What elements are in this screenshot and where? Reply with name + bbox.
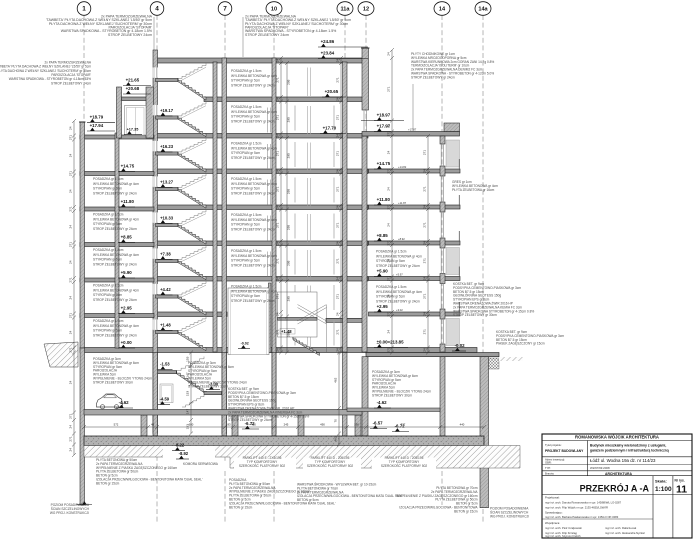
svg-text:45: 45 <box>151 423 155 427</box>
svg-text:STROP ŻELBETOWY gr 30cm: STROP ŻELBETOWY gr 30cm <box>453 312 497 317</box>
slab floor left bay <box>80 314 154 318</box>
wall stair shaft left / grid 4 <box>153 50 158 434</box>
svg-text:POSADZKA gr 1.5cm: POSADZKA gr 1.5cm <box>93 248 124 252</box>
svg-text:STYROPIAN gr 5cm: STYROPIAN gr 5cm <box>231 115 260 119</box>
svg-text:PIASEK ZAGĘSZCZONY gr 15cm: PIASEK ZAGĘSZCZONY gr 15cm <box>496 342 545 346</box>
level marker +0.00 left <box>118 340 135 348</box>
wall grid 11a basement <box>343 353 348 437</box>
text block roof build-up B <box>245 15 351 37</box>
window grid 12 below parapet <box>364 110 367 132</box>
svg-text:+11.80: +11.80 <box>121 199 135 204</box>
svg-text:STYROPIAN gr 5cm: STYROPIAN gr 5cm <box>93 187 122 191</box>
svg-text:271: 271 <box>386 240 390 245</box>
svg-text:-8.22: -8.22 <box>175 443 185 448</box>
svg-text:STROP ŻELBETOWY gr 24cm: STROP ŻELBETOWY gr 24cm <box>93 297 137 302</box>
svg-text:STROP ŻELBETOWY gr 24cm: STROP ŻELBETOWY gr 24cm <box>93 332 137 337</box>
svg-text:+8.85: +8.85 <box>377 233 389 238</box>
svg-text:11a: 11a <box>340 7 350 13</box>
text label komora serwisowa <box>183 462 219 466</box>
text block foundation build-up left <box>96 458 203 485</box>
svg-text:WG PROJ. KONSTRUKCJI: WG PROJ. KONSTRUKCJI <box>50 511 89 515</box>
level marker -6.72 right <box>392 424 409 432</box>
svg-text:147: 147 <box>185 372 189 377</box>
svg-text:Sprawdzający:: Sprawdzający: <box>545 511 563 515</box>
svg-text:271: 271 <box>422 258 426 263</box>
svg-text:737: 737 <box>401 423 406 427</box>
svg-text:24: 24 <box>68 381 72 385</box>
svg-text:STROP ŻELBETOWY 24cm: STROP ŻELBETOWY 24cm <box>245 32 289 37</box>
svg-text:-4.62: -4.62 <box>377 400 388 405</box>
wall grid 14 with window gaps <box>440 136 445 144</box>
slab roof +23.84 <box>157 58 368 63</box>
svg-text:-6.57: -6.57 <box>373 421 384 426</box>
svg-text:24: 24 <box>275 205 279 209</box>
svg-text:295: 295 <box>287 225 291 230</box>
door gap in shaft wall at landing <box>153 319 158 329</box>
svg-text:Tytuł projektu:: Tytuł projektu: <box>545 443 562 447</box>
svg-text:24: 24 <box>275 241 279 245</box>
text block floor build-up left bay <box>93 284 139 302</box>
ground slab right extension -0.02 <box>366 353 499 357</box>
level marker +1.48 mezzanine <box>280 329 295 335</box>
svg-text:WYLEWKA BETONOWA gr 4cm: WYLEWKA BETONOWA gr 4cm <box>93 182 139 186</box>
svg-text:+8.92: +8.92 <box>398 237 405 241</box>
svg-text:Budynek mieszkalny wielorodzin: Budynek mieszkalny wielorodzinny z usług… <box>590 444 666 448</box>
svg-text:24: 24 <box>335 134 339 138</box>
svg-text:Skala:: Skala: <box>655 479 667 484</box>
svg-text:+18.97: +18.97 <box>377 113 391 118</box>
balcony balustrade tick <box>458 267 460 277</box>
svg-text:PŁYTA ŻELBETOWA gr 16cm: PŁYTA ŻELBETOWA gr 16cm <box>452 187 495 192</box>
text block terrace build-up right <box>411 52 494 79</box>
text block ground floor build-up mid <box>188 361 247 388</box>
svg-text:83: 83 <box>227 423 231 427</box>
svg-text:Łódź ul. Wodna 19a dz. nr 114/: Łódź ul. Wodna 19a dz. nr 114/23 <box>590 458 656 463</box>
left parapet cap <box>79 121 86 123</box>
slab floor left bay <box>80 207 154 211</box>
svg-text:271: 271 <box>68 277 72 282</box>
door gap in shaft wall at landing <box>153 176 158 186</box>
svg-text:271: 271 <box>386 86 390 91</box>
svg-text:Projektował:: Projektował: <box>545 496 560 500</box>
svg-text:24: 24 <box>335 348 339 352</box>
svg-text:24: 24 <box>68 154 72 158</box>
wall left interior <box>115 133 119 348</box>
level marker +17.70 <box>320 126 346 134</box>
svg-text:10: 10 <box>271 7 277 13</box>
svg-text:4: 4 <box>155 6 159 13</box>
right bay basement slab <box>347 408 440 412</box>
svg-text:24: 24 <box>335 169 339 173</box>
svg-text:271: 271 <box>335 151 339 156</box>
grid line 10 <box>273 15 275 522</box>
slab floor left bay <box>80 172 154 176</box>
svg-text:271: 271 <box>386 347 390 352</box>
balcony balustrade tick <box>458 231 460 241</box>
door gap in shaft wall at landing <box>153 67 158 77</box>
svg-text:TYP:: TYP: <box>545 466 551 470</box>
window mullions tower facade <box>295 250 334 275</box>
svg-text:POSADZKA gr 1.5cm: POSADZKA gr 1.5cm <box>231 213 262 217</box>
svg-text:271: 271 <box>335 77 339 82</box>
door gap in shaft wall at landing <box>153 284 158 294</box>
car in garage <box>97 394 123 409</box>
svg-text:WYLEWKA BETONOWA gr 4cm: WYLEWKA BETONOWA gr 4cm <box>93 217 139 221</box>
svg-text:24: 24 <box>275 134 279 138</box>
svg-text:271: 271 <box>386 311 390 316</box>
svg-text:ARCHITEKTURA: ARCHITEKTURA <box>605 472 632 476</box>
text block floor build-up mid bay <box>231 69 277 87</box>
svg-text:WYLEWKA BETONOWA gr 4cm: WYLEWKA BETONOWA gr 4cm <box>231 74 277 78</box>
svg-text:24: 24 <box>68 296 72 300</box>
pit wall parklift 2 <box>232 415 238 436</box>
svg-text:STYROPIAN gr 5cm: STYROPIAN gr 5cm <box>231 79 260 83</box>
svg-text:+11.87: +11.87 <box>398 201 407 205</box>
svg-text:-4.62: -4.62 <box>119 400 130 405</box>
leader line roof B <box>242 17 244 57</box>
svg-text:11: 11 <box>676 484 687 496</box>
svg-text:KOMORA SERWISOWA: KOMORA SERWISOWA <box>183 462 219 466</box>
svg-text:271: 271 <box>275 222 279 227</box>
level marker -0.02 entrance <box>238 342 250 349</box>
svg-text:STROP ŻELBETOWY gr 24cm: STROP ŻELBETOWY gr 24cm <box>93 190 137 195</box>
grid line 14 <box>441 15 443 505</box>
svg-text:STROP ŻELBETOWY gr 24cm: STROP ŻELBETOWY gr 24cm <box>376 298 420 303</box>
svg-text:271: 271 <box>422 222 426 227</box>
pit wall parklift 1 <box>141 415 147 436</box>
level marker +14.75 left bay <box>118 164 135 172</box>
svg-text:+14.75: +14.75 <box>121 164 135 169</box>
svg-text:STROP ŻELBETOWY gr 24cm: STROP ŻELBETOWY gr 24cm <box>93 226 137 231</box>
svg-text:+17.70: +17.70 <box>323 126 337 131</box>
slab terrace +17.97 <box>362 132 460 137</box>
wall grid 14 basement <box>440 357 445 436</box>
staircase flights in shaft <box>156 64 207 101</box>
svg-text:462: 462 <box>333 377 337 382</box>
svg-text:295: 295 <box>287 332 291 337</box>
svg-text:STYROPIAN gr 5cm: STYROPIAN gr 5cm <box>231 187 260 191</box>
svg-text:+24.86: +24.86 <box>321 39 335 44</box>
text block floor build-up left bay <box>93 177 139 195</box>
svg-text:271: 271 <box>422 186 426 191</box>
svg-text:mgr inż. arch. Rafał Łucak: mgr inż. arch. Rafał Łucak <box>605 526 637 530</box>
dimension chain mid B <box>285 61 289 355</box>
door frames mid bay near grid 10 <box>268 108 271 133</box>
svg-text:295: 295 <box>287 79 291 84</box>
svg-text:STYROPIAN gr 5cm: STYROPIAN gr 5cm <box>231 223 260 227</box>
svg-text:+16.23: +16.23 <box>160 144 174 149</box>
level marker +17.97 <box>374 124 391 132</box>
wall grid 12 lower <box>362 136 367 352</box>
svg-text:410: 410 <box>251 423 256 427</box>
svg-text:+17.87: +17.87 <box>408 128 417 132</box>
svg-text:+2.95: +2.95 <box>377 304 389 309</box>
svg-text:24: 24 <box>68 331 72 335</box>
slab floor +17.70 <box>155 134 368 139</box>
slab floor right bay with balcony <box>369 277 461 281</box>
level marker -0.02 <box>452 343 466 351</box>
soil blob left of building <box>44 342 78 367</box>
wall grid 11a <box>343 62 348 352</box>
svg-text:POSADZKA gr 1.5cm: POSADZKA gr 1.5cm <box>93 177 124 181</box>
door gap in shaft wall at landing <box>153 248 158 258</box>
svg-text:WYLEWKA BETONOWA gr 4cm: WYLEWKA BETONOWA gr 4cm <box>231 182 277 186</box>
leader line roof A <box>153 17 155 50</box>
svg-text:WYLEWKA BETONOWA gr 4cm: WYLEWKA BETONOWA gr 4cm <box>376 254 422 258</box>
svg-text:+5.97: +5.97 <box>396 273 403 277</box>
window mullions tower facade <box>295 106 334 131</box>
svg-text:147: 147 <box>185 409 189 414</box>
grid line 7 <box>224 15 226 522</box>
text block foundation build-up right <box>396 486 478 513</box>
level marker +23.84 <box>318 51 368 59</box>
level marker landing +13.27 <box>158 179 174 187</box>
text block pavement right <box>496 330 564 346</box>
svg-text:1:100: 1:100 <box>655 486 672 493</box>
window mullions tower facade <box>295 142 334 167</box>
svg-text:+1.48: +1.48 <box>160 322 171 327</box>
level marker ±0.00=213.85 <box>374 340 408 348</box>
text block right terrace build-up <box>453 282 534 317</box>
grid bubble 7 <box>218 2 232 16</box>
level marker landing +7.38 <box>158 251 173 259</box>
svg-text:24: 24 <box>422 277 426 281</box>
slab garage ceiling +2.48 <box>326 318 366 322</box>
window mullions tower facade <box>295 321 334 346</box>
level marker +11.80 right bay <box>374 197 391 205</box>
svg-text:24: 24 <box>386 259 390 263</box>
svg-text:295: 295 <box>287 117 291 122</box>
level marker +2.95 right bay <box>374 304 391 312</box>
slab floor +11.80 tower <box>155 205 368 210</box>
dimension chain basement right <box>337 351 341 447</box>
text block parklift <box>381 456 428 468</box>
wall grid 10 double leaf <box>269 283 272 353</box>
text block floor build-up mid bay <box>231 285 277 303</box>
level marker landing +16.23 <box>158 144 174 152</box>
svg-text:+13.27: +13.27 <box>160 179 174 184</box>
svg-text:+5.90: +5.90 <box>377 269 389 274</box>
staircase basement flights <box>156 371 177 374</box>
text block floor build-up mid bay <box>231 177 277 195</box>
balcony door right bay <box>446 140 460 167</box>
svg-text:Nr rys.: Nr rys. <box>675 479 685 483</box>
svg-text:POSADZKA gr 1.5cm: POSADZKA gr 1.5cm <box>231 285 262 289</box>
svg-text:-0.02: -0.02 <box>455 343 466 348</box>
svg-text:24: 24 <box>335 97 339 101</box>
level marker -4.62 right <box>374 400 391 408</box>
level marker +17.94 <box>87 123 115 131</box>
svg-text:PRZEKRÓJ A -A: PRZEKRÓJ A -A <box>580 483 650 494</box>
svg-text:POSADZKA gr 1.5cm: POSADZKA gr 1.5cm <box>231 249 262 253</box>
slab floor +8.85 tower <box>155 241 368 246</box>
svg-text:14a: 14a <box>478 7 488 13</box>
grid line 4 <box>156 15 158 522</box>
svg-text:271: 271 <box>275 294 279 299</box>
svg-text:WYLEWKA BETONOWA gr 4cm: WYLEWKA BETONOWA gr 4cm <box>231 254 277 258</box>
svg-text:24: 24 <box>335 277 339 281</box>
svg-text:490: 490 <box>320 423 325 427</box>
grid bubble 11a <box>337 2 353 16</box>
svg-text:STROP ŻELBETOWY 30cm: STROP ŻELBETOWY 30cm <box>93 379 133 384</box>
svg-text:Branża:: Branża: <box>545 472 555 476</box>
svg-text:WYLEWKA BETONOWA gr 4cm: WYLEWKA BETONOWA gr 4cm <box>231 218 277 222</box>
svg-text:+14.82: +14.82 <box>398 165 407 169</box>
wall grid 7 basement <box>222 353 227 437</box>
svg-text:+17.35: +17.35 <box>127 127 139 131</box>
text block parklift <box>307 456 354 468</box>
svg-text:STROP ŻELBETOWY gr 24cm: STROP ŻELBETOWY gr 24cm <box>231 226 275 231</box>
mezzanine floor slab +1.48 <box>278 317 318 320</box>
svg-text:POSADZKA gr 1.5cm: POSADZKA gr 1.5cm <box>376 250 407 254</box>
balcony balustrade tick <box>458 302 460 312</box>
text block foundation build-up mid <box>229 478 336 509</box>
slab floor +5.90 tower <box>155 277 368 282</box>
level marker +17.35 <box>124 127 142 134</box>
svg-text:SZEROKOŚĆ PLATFORMY 502: SZEROKOŚĆ PLATFORMY 502 <box>381 463 428 468</box>
text block balcony build-up <box>452 180 498 192</box>
balcony balustrade tick <box>458 195 460 205</box>
svg-text:POSADZKA gr 1.5cm: POSADZKA gr 1.5cm <box>93 213 124 217</box>
svg-text:24: 24 <box>386 52 390 56</box>
svg-text:24: 24 <box>386 124 390 128</box>
svg-text:24: 24 <box>422 348 426 352</box>
wall grid 12 upper <box>362 48 369 110</box>
svg-text:440: 440 <box>460 423 465 427</box>
wall grid 12 basement <box>362 357 368 436</box>
svg-text:24: 24 <box>68 225 72 229</box>
dimension chain 11a <box>339 56 343 355</box>
svg-text:STROP ŻELBETOWY gr 24cm: STROP ŻELBETOWY gr 24cm <box>231 298 275 303</box>
wall left diaphragm below ground <box>80 348 85 505</box>
level marker -6.57 <box>370 421 387 429</box>
grid line 14a <box>482 15 484 522</box>
svg-text:14: 14 <box>439 7 446 13</box>
elevator door basement <box>160 384 173 403</box>
svg-text:271: 271 <box>422 329 426 334</box>
svg-text:24: 24 <box>335 205 339 209</box>
level marker +8.85 right bay <box>374 233 391 241</box>
text block diaphragm note left <box>50 503 90 515</box>
wall stair shaft right <box>213 62 217 352</box>
slab floor right bay with balcony <box>369 205 461 209</box>
wall right diaphragm <box>480 357 489 508</box>
svg-text:-1.53: -1.53 <box>160 362 170 367</box>
svg-text:STROP ŻELBETOWY gr 24cm: STROP ŻELBETOWY gr 24cm <box>231 155 275 160</box>
svg-text:STROP ŻELBETOWY gr 24cm: STROP ŻELBETOWY gr 24cm <box>231 190 275 195</box>
svg-text:24: 24 <box>68 126 72 130</box>
level marker landing +4.42 <box>158 287 173 295</box>
partition lines mid-right bay <box>308 68 311 97</box>
dimension chain mid A <box>279 56 283 355</box>
svg-text:STROP ŻELBETOWY gr 24cm: STROP ŻELBETOWY gr 24cm <box>231 82 275 87</box>
svg-text:24: 24 <box>68 260 72 264</box>
slab floor +2.95 west <box>155 312 227 317</box>
svg-text:271: 271 <box>335 186 339 191</box>
level marker +21.65 <box>123 78 151 86</box>
svg-text:WYLEWKA BETONOWA gr 4cm: WYLEWKA BETONOWA gr 4cm <box>93 253 139 257</box>
svg-text:Współpraca:: Współpraca: <box>545 521 560 525</box>
level marker -8.92 <box>176 451 189 459</box>
level marker landing +10.33 <box>158 215 174 223</box>
grid line 11a <box>344 15 346 455</box>
svg-text:WYLEWKA BETONOWA gr 4cm: WYLEWKA BETONOWA gr 4cm <box>231 110 277 114</box>
pit wall parklift 4 <box>355 415 361 436</box>
svg-text:271: 271 <box>335 258 339 263</box>
white cutouts for parklift labels <box>181 462 229 472</box>
svg-text:153: 153 <box>185 356 189 361</box>
svg-text:WYLEWKA BETONOWA gr 4cm: WYLEWKA BETONOWA gr 4cm <box>93 324 139 328</box>
dimension chain right B <box>426 134 430 355</box>
level marker +20.65 <box>322 89 346 97</box>
slab floor left bay <box>80 243 154 247</box>
soil hatch right of building <box>499 357 523 361</box>
svg-text:+4.42: +4.42 <box>160 287 171 292</box>
door gap in shaft wall at landing <box>153 212 158 222</box>
svg-text:24: 24 <box>275 348 279 352</box>
balcony balustrade tick <box>458 159 460 169</box>
svg-text:271: 271 <box>386 276 390 281</box>
svg-text:24: 24 <box>422 169 426 173</box>
staircase mezzanine cut flight <box>293 337 320 356</box>
balcony door right bay <box>446 248 460 275</box>
svg-text:+2.95: +2.95 <box>121 306 133 311</box>
text block ground floor build-up left <box>93 357 152 384</box>
grid line 1 <box>83 15 85 460</box>
svg-text:295: 295 <box>287 260 291 265</box>
terrace parapet line +18.97 <box>361 120 404 122</box>
svg-text:24: 24 <box>68 189 72 193</box>
svg-text:572: 572 <box>114 423 119 427</box>
svg-text:+21.65: +21.65 <box>126 78 140 83</box>
svg-text:-4.59: -4.59 <box>160 397 170 402</box>
svg-text:mgr inż. arch. Filip Wójcik: mgr inż. arch. Filip Wójcik nr upr. 2135… <box>545 506 608 510</box>
svg-text:BETON gr 15cm: BETON gr 15cm <box>454 509 478 513</box>
level marker +11.80 left bay <box>118 199 135 207</box>
level marker landing -3.00 <box>206 382 220 390</box>
svg-text:WG PROJ. KONSTRUKCJI: WG PROJ. KONSTRUKCJI <box>490 515 529 519</box>
svg-text:mgr inż. arch. Aleksandra Nyck: mgr inż. arch. Aleksandra Nyckoń <box>605 531 646 535</box>
svg-text:STYROPIAN gr 5cm: STYROPIAN gr 5cm <box>93 293 122 297</box>
svg-text:POSADZKA gr 1.5cm: POSADZKA gr 1.5cm <box>93 284 124 288</box>
svg-text:STROP ŻELBETOWY gr 24cm: STROP ŻELBETOWY gr 24cm <box>231 262 275 267</box>
svg-text:24: 24 <box>68 425 72 429</box>
svg-text:271: 271 <box>68 436 72 441</box>
svg-text:271: 271 <box>335 329 339 334</box>
svg-text:271: 271 <box>68 242 72 247</box>
penthouse door <box>125 106 147 136</box>
svg-text:+23.84: +23.84 <box>321 51 335 56</box>
svg-text:24: 24 <box>68 448 72 452</box>
svg-text:271: 271 <box>68 135 72 140</box>
svg-text:24: 24 <box>335 59 339 63</box>
label box -8.22 / -8.92 <box>163 446 215 464</box>
svg-text:271: 271 <box>68 206 72 211</box>
text block floor build-up right bay <box>376 285 422 303</box>
penthouse wall right parapet <box>146 87 154 138</box>
level marker +18.97 <box>374 113 391 121</box>
svg-text:24: 24 <box>275 277 279 281</box>
svg-text:24: 24 <box>275 59 279 63</box>
slab floor right bay with balcony <box>369 312 461 316</box>
svg-text:mgr inż. arch. Szymon Frelich: mgr inż. arch. Szymon Frelich <box>545 534 581 538</box>
svg-text:271: 271 <box>335 115 339 120</box>
level marker +2.95 left bay <box>118 306 135 314</box>
svg-text:24: 24 <box>386 187 390 191</box>
svg-text:24: 24 <box>386 294 390 298</box>
svg-text:462: 462 <box>333 436 337 441</box>
text block foundation build-up mid2 <box>297 482 404 503</box>
